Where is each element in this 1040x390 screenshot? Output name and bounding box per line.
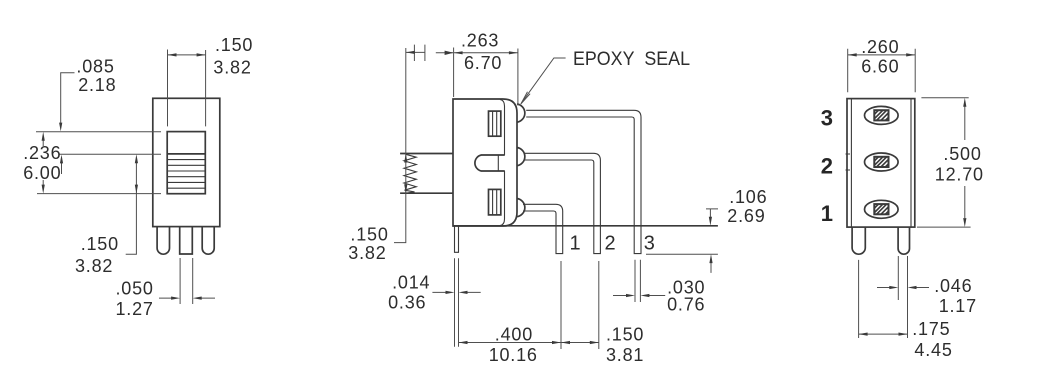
front view slider ridges [167,154,205,188]
contact slot upper [489,111,501,136]
terminal oval 1 (bottom) [865,200,899,218]
svg-text:1: 1 [570,232,581,254]
lead wire from terminal 3 (bottom) to pin 1 [523,204,563,254]
svg-text:.260: .260 [861,37,899,57]
dimension .150/3.82 slider travel (lower left) [75,154,138,276]
svg-text:.050: .050 [116,279,154,299]
back view pin left [852,227,865,254]
svg-text:12.70: 12.70 [935,164,984,184]
contact slot lower [489,189,501,215]
svg-text:EPOXY SEAL: EPOXY SEAL [573,48,690,70]
svg-text:0.76: 0.76 [667,295,705,315]
pin number 2 [605,232,616,254]
svg-text:1.17: 1.17 [939,296,977,316]
extension line B (slider top) [59,153,161,155]
dimension .400/10.16 pin spacing [459,261,562,365]
svg-text:6.70: 6.70 [464,53,502,73]
svg-text:1: 1 [821,201,833,226]
svg-text:.236: .236 [23,143,61,163]
lead wire from terminal 1 (top) to pin 3 [526,110,641,254]
dimension .050/1.27 middle pin width [116,258,216,319]
dimension .014/0.36 front pin thickness [388,258,481,347]
actuator window lines on left face [400,154,453,194]
svg-text:.150: .150 [350,225,388,245]
front view body [153,98,220,226]
svg-text:.150: .150 [81,234,119,254]
front view actuator window [167,132,205,194]
svg-text:10.16: 10.16 [489,345,538,365]
dimension .263/6.70 body depth [454,30,518,105]
dimension .150/3.82 side window height [348,48,407,263]
svg-text:.046: .046 [934,276,972,296]
svg-text:2: 2 [605,232,616,254]
svg-text:.150: .150 [606,325,644,345]
actuator handle break (zigzag) [404,154,416,193]
svg-text:0.36: 0.36 [388,293,426,313]
terminal label 2 [821,154,833,179]
pin number 3 [644,232,655,254]
outside arrow pointing to body front face [436,51,454,55]
svg-text:.085: .085 [76,57,114,77]
terminal bump 3 [517,199,525,217]
handle thickness ticks and arrow [406,45,425,61]
terminal oval 2 (middle) [865,153,899,171]
svg-text:.106: .106 [729,187,767,207]
side view body [453,99,517,226]
pin bottom extension line (right of pin 3) [646,253,718,255]
svg-text:4.45: 4.45 [914,340,952,360]
dimension .150/3.81 pin pitch [561,261,644,365]
svg-text:3.81: 3.81 [606,345,644,365]
pin number 1 [570,232,581,254]
svg-text:6.60: 6.60 [861,57,899,77]
side view seating plane line [453,225,718,227]
extension line C (window bottom) [37,193,161,195]
svg-text:.175: .175 [912,319,950,339]
svg-text:3.82: 3.82 [348,243,386,263]
lead wire from terminal 2 (middle) to pin 2 [525,153,601,254]
svg-text:.263: .263 [461,30,499,50]
dimension .030/0.76 pin thickness [613,260,705,315]
dimension .085/2.18 leader [59,57,116,174]
svg-text:3.82: 3.82 [75,256,113,276]
dimension .260/6.60 body width [848,37,916,92]
svg-text:3: 3 [821,105,833,130]
dimension .046/1.17 pin thickness [877,256,977,338]
svg-text:6.00: 6.00 [23,163,61,183]
svg-text:3.82: 3.82 [213,58,251,78]
side view epoxy seal face line [500,99,505,225]
svg-text:2.18: 2.18 [78,75,116,95]
front view pin left [157,227,169,255]
epoxy seal label and leader [521,48,690,104]
front view pin middle [180,227,193,254]
terminal bump 2 [517,148,525,166]
svg-text:1.27: 1.27 [116,299,154,319]
svg-text:.014: .014 [392,272,430,292]
svg-text:.150: .150 [215,35,253,55]
svg-text:.500: .500 [943,144,981,164]
extension line A (window top) [36,131,161,133]
svg-text:.400: .400 [495,325,533,345]
dimension .500/12.70 body height [917,98,984,227]
dimension .150/3.82 window width (top of front view) [168,35,254,126]
dimension .236/6.00 [23,132,61,194]
svg-text:2.69: 2.69 [727,206,765,226]
svg-text:2: 2 [821,154,833,179]
movable contact slot (middle) [475,155,505,171]
front pin of side view [455,226,459,252]
dimension .106/2.69 standoff [706,187,767,273]
front view pin right [202,227,214,255]
terminal label 1 [821,201,833,226]
back view body [846,99,915,228]
terminal label 3 [821,105,833,130]
svg-text:3: 3 [644,232,655,254]
terminal bump 1 [517,104,525,122]
dimension .175/4.45 pin spacing [859,260,953,360]
back view pin right [898,227,909,254]
terminal oval 3 (top) [865,106,899,124]
